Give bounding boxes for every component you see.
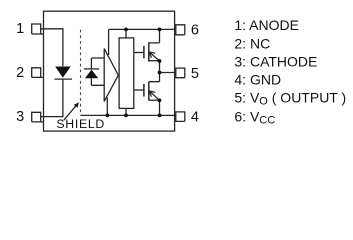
svg-text:SHIELD: SHIELD [56, 117, 105, 131]
svg-text:6: VCC: 6: VCC [234, 108, 275, 126]
svg-text:6: 6 [191, 23, 199, 39]
svg-text:4: GND: 4: GND [234, 71, 281, 87]
svg-text:2: NC: 2: NC [234, 35, 270, 51]
svg-text:5: 5 [191, 66, 199, 82]
svg-text:4: 4 [191, 110, 199, 126]
svg-text:5: VO ( OUTPUT ): 5: VO ( OUTPUT ) [234, 90, 346, 108]
svg-text:1: ANODE: 1: ANODE [234, 17, 299, 33]
svg-text:1: 1 [16, 21, 24, 37]
svg-text:3: 3 [16, 109, 24, 125]
svg-text:2: 2 [16, 65, 24, 81]
svg-text:3: CATHODE: 3: CATHODE [234, 54, 317, 70]
